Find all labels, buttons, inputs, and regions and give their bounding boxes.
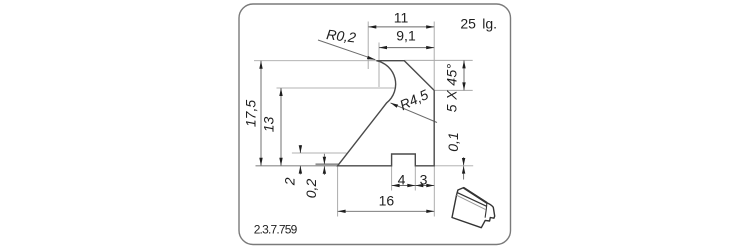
extension line chamfer bottom right [435,89,473,91]
extension line bottom edge left [256,165,338,167]
dimension 2 outside arrows [299,145,301,153]
leader R4,5 [391,103,438,123]
drawing card border [239,4,511,245]
svg-text:4: 4 [398,172,406,188]
leader R0,2 [318,40,375,60]
svg-text:5 X 45°: 5 X 45° [444,63,460,112]
extension line right x434 top [433,22,435,91]
extension line notch left [391,166,393,190]
extension line notch right [414,166,416,190]
reference line 0,2 offset gray [316,163,339,165]
dimension 5 X 45 [463,60,465,90]
svg-text:11: 11 [394,10,409,26]
dimension line 4 and 3 [392,185,435,187]
dimension 0,1 outside arrows [463,157,465,165]
svg-text:R4,5: R4,5 [397,86,431,113]
svg-text:13: 13 [261,117,277,133]
extension line 16 left [337,166,339,216]
svg-text:0,2: 0,2 [303,179,319,199]
part outline [338,61,435,166]
svg-text:2.3.7.759: 2.3.7.759 [254,222,298,236]
dimension line 9,1 [379,47,434,49]
extension line 11 left [367,22,369,70]
extension line top edge right [404,59,472,61]
dimension 0,2 outside arrows [323,154,325,164]
svg-text:25 lg.: 25 lg. [460,15,497,31]
dimension line 16 [338,210,435,212]
svg-text:9,1: 9,1 [396,28,416,44]
svg-text:16: 16 [379,193,395,209]
svg-text:3: 3 [420,172,428,188]
dimension line 11 [368,26,434,28]
extension line 13 reference [277,87,395,89]
svg-text:17,5: 17,5 [243,100,259,127]
extension line bottom edge right 0,1 [434,165,473,167]
reference line 2mm level [292,152,347,154]
svg-text:0,1: 0,1 [445,132,461,151]
extension line 9,1 left [378,43,380,88]
isometric part icon [452,188,495,228]
dimension line 17,5 [260,61,262,166]
svg-text:R0,2: R0,2 [325,26,357,46]
extension line 16 right [433,166,435,216]
extension line top edge left [254,60,377,62]
dimension line 13 [280,88,282,166]
svg-text:2: 2 [282,177,298,186]
